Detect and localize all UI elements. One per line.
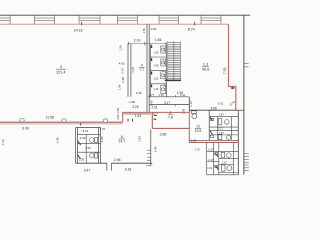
cell fixtures bbox=[161, 46, 166, 94]
top exterior wall outer line bbox=[0, 14, 250, 16]
svg-text:2.86: 2.86 bbox=[160, 133, 167, 137]
svg-text:4.28: 4.28 bbox=[131, 67, 135, 73]
red wall x189.3 bbox=[188, 112, 190, 142]
svg-text:0.38: 0.38 bbox=[151, 27, 157, 31]
svg-text:1.55: 1.55 bbox=[142, 28, 146, 34]
svg-text:4.60: 4.60 bbox=[119, 62, 125, 66]
door marks bbox=[154, 114, 157, 117]
svg-text:11.58: 11.58 bbox=[45, 116, 54, 120]
svg-text:1.40: 1.40 bbox=[153, 88, 158, 91]
svg-text:3.47: 3.47 bbox=[84, 168, 91, 172]
fire escape hatch right bottom bbox=[244, 154, 249, 171]
column circles bbox=[20, 118, 24, 122]
svg-text:7.7: 7.7 bbox=[139, 68, 144, 72]
svg-text:3.26: 3.26 bbox=[132, 105, 138, 109]
svg-text:2.08: 2.08 bbox=[182, 108, 186, 114]
svg-text:4: 4 bbox=[141, 64, 143, 68]
door jamb ticks on y121.3 bbox=[127, 119, 129, 122]
porch stub bbox=[106, 163, 108, 170]
svg-text:2.20: 2.20 bbox=[100, 136, 104, 142]
svg-text:4.40: 4.40 bbox=[154, 146, 158, 152]
window W2 bbox=[35, 15, 55, 24]
wc toilets bbox=[90, 138, 98, 159]
svg-text:1.10: 1.10 bbox=[158, 93, 164, 97]
svg-text:3.45: 3.45 bbox=[55, 137, 59, 143]
svg-text:10.9: 10.9 bbox=[195, 129, 202, 133]
svg-text:3.12: 3.12 bbox=[1, 139, 5, 145]
window W5 bbox=[159, 15, 179, 24]
wc cluster top bbox=[76, 127, 101, 129]
svg-text:2.34: 2.34 bbox=[121, 68, 125, 74]
top exterior wall inner red line bbox=[0, 23, 229, 25]
wc cluster dividers bbox=[77, 134, 100, 136]
door mark at red jog bbox=[231, 87, 234, 89]
toilets right cluster bbox=[210, 118, 232, 171]
room 10 label bbox=[195, 124, 202, 132]
room 4 label bbox=[139, 64, 144, 72]
wall x189 bbox=[188, 97, 190, 113]
svg-text:3.56: 3.56 bbox=[210, 107, 216, 111]
svg-text:2.36: 2.36 bbox=[80, 136, 86, 140]
svg-text:1.98: 1.98 bbox=[129, 100, 135, 104]
svg-text:4.70: 4.70 bbox=[100, 127, 106, 131]
corridor red line main bbox=[0, 121, 123, 123]
lower wc grid bbox=[206, 142, 208, 174]
right cluster: room 10 bbox=[208, 110, 210, 140]
svg-text:1.55: 1.55 bbox=[154, 52, 159, 55]
window W4 bbox=[117, 15, 137, 24]
fixture sink room10 bbox=[192, 111, 197, 114]
svg-text:40.6: 40.6 bbox=[202, 68, 209, 72]
svg-text:1.60: 1.60 bbox=[136, 91, 142, 95]
dim line y43.5 bbox=[128, 43, 166, 45]
svg-text:1.56: 1.56 bbox=[118, 45, 122, 51]
wc cluster left outer wall double bbox=[75, 128, 77, 164]
svg-text:2.51: 2.51 bbox=[151, 106, 157, 110]
window W1 bbox=[0, 15, 10, 24]
svg-text:1.00: 1.00 bbox=[163, 83, 167, 89]
svg-text:2.17: 2.17 bbox=[218, 127, 224, 131]
corridor jog red bbox=[123, 112, 190, 122]
svg-text:10: 10 bbox=[196, 124, 200, 128]
right exterior wall bbox=[243, 15, 245, 174]
svg-text:14.7: 14.7 bbox=[118, 140, 125, 144]
room 6 bottom wall bbox=[76, 162, 107, 164]
svg-text:1.73: 1.73 bbox=[194, 148, 200, 152]
svg-text:1.3: 1.3 bbox=[203, 62, 208, 66]
svg-text:3.61: 3.61 bbox=[125, 168, 132, 172]
small rooms column walls bbox=[149, 44, 151, 97]
svg-text:0.31: 0.31 bbox=[218, 102, 224, 106]
svg-text:1.04: 1.04 bbox=[135, 114, 141, 118]
svg-text:1.55: 1.55 bbox=[155, 38, 162, 42]
room 8 top wall bbox=[149, 104, 189, 106]
svg-text:7.8: 7.8 bbox=[168, 115, 173, 119]
window W3 bbox=[79, 15, 100, 24]
window W6 bbox=[201, 15, 221, 24]
svg-text:1.55: 1.55 bbox=[222, 162, 227, 165]
room 8 label bbox=[168, 111, 174, 120]
svg-text:6: 6 bbox=[121, 135, 123, 139]
red wall y142.4 bbox=[189, 141, 238, 143]
room 6 left wall double bbox=[98, 127, 100, 163]
svg-text:1.55: 1.55 bbox=[154, 78, 159, 81]
svg-text:*3.13: *3.13 bbox=[81, 129, 88, 133]
staircase base bbox=[165, 79, 181, 81]
svg-text:1.42: 1.42 bbox=[189, 101, 193, 107]
svg-text:1.21: 1.21 bbox=[207, 166, 213, 170]
svg-text:2: 2 bbox=[60, 65, 62, 69]
red bearing wall right bbox=[229, 24, 244, 110]
svg-text:0.98: 0.98 bbox=[121, 77, 125, 83]
room 4 left wall double bbox=[127, 44, 129, 97]
cell door marks bbox=[151, 45, 152, 87]
svg-text:1.07: 1.07 bbox=[208, 147, 214, 151]
wc door leaves bbox=[78, 141, 81, 145]
svg-text:2.94: 2.94 bbox=[114, 158, 121, 162]
svg-text:1.87: 1.87 bbox=[219, 113, 225, 117]
room 1.3 label bbox=[202, 62, 209, 71]
svg-text:2.19: 2.19 bbox=[134, 39, 141, 43]
svg-text:3.42: 3.42 bbox=[137, 136, 141, 142]
room 40.6 bottom wall bbox=[189, 109, 236, 111]
svg-text:1.04: 1.04 bbox=[117, 84, 121, 90]
external ladder bbox=[150, 130, 152, 166]
svg-text:0.90: 0.90 bbox=[85, 146, 91, 150]
red wall y128.4 bbox=[152, 127, 189, 129]
wall x148 (left of small rooms column) bbox=[146, 24, 148, 112]
upper wc rows bbox=[209, 116, 238, 118]
svg-text:8.74: 8.74 bbox=[188, 28, 195, 32]
svg-text:0.65: 0.65 bbox=[116, 114, 120, 120]
svg-text:1.62: 1.62 bbox=[191, 138, 197, 142]
svg-text:1.87: 1.87 bbox=[219, 131, 225, 135]
svg-text:1.55: 1.55 bbox=[154, 65, 159, 68]
right wall window bbox=[244, 62, 249, 64]
svg-text:1.98: 1.98 bbox=[177, 91, 183, 95]
svg-text:6.00: 6.00 bbox=[22, 127, 29, 131]
wall y96.8 bbox=[148, 96, 189, 98]
svg-text:121.4: 121.4 bbox=[56, 71, 66, 75]
room 2 label bbox=[56, 65, 66, 75]
svg-text:0.99: 0.99 bbox=[116, 107, 120, 113]
door blobs bbox=[215, 153, 218, 157]
svg-text:14.16: 14.16 bbox=[74, 28, 83, 32]
red wall x152.3 bbox=[151, 112, 153, 128]
svg-text:2.77: 2.77 bbox=[149, 93, 155, 97]
svg-text:2.17: 2.17 bbox=[208, 158, 214, 162]
tick below corridor bbox=[80, 123, 82, 126]
room 6 label bbox=[118, 135, 125, 144]
staircase bbox=[168, 41, 181, 80]
svg-text:7.35: 7.35 bbox=[223, 68, 227, 75]
